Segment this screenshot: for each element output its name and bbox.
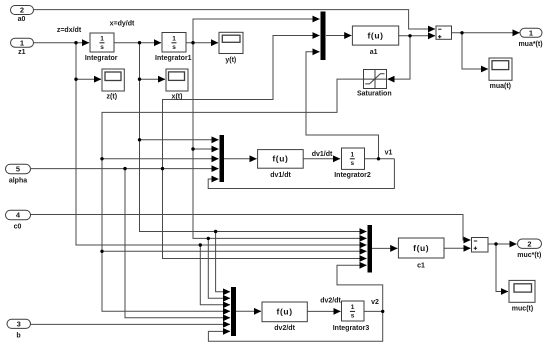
svg-text:2: 2 [20,6,24,15]
svg-text:1: 1 [350,151,354,158]
Saturation block [364,70,387,89]
svg-text:Saturation: Saturation [357,91,392,98]
wire v1 feedback down to Mux2 input 5 [208,159,394,189]
node junction z to x(t) [138,78,141,81]
svg-text:1: 1 [351,304,355,311]
wire z vertical branch down to c1-mux bus (input 1) [140,43,367,232]
wire z drop to Mux4 input 1 [216,232,230,292]
svg-text:alpha: alpha [9,178,27,185]
wire a1 output branch down into Saturation right side [388,36,411,79]
wire Sum1 output to outport mua*(t) [452,32,520,34]
scope screen y(t) [222,35,240,42]
integrator block Integrator2 [342,148,365,169]
svg-text:mua(t): mua(t) [490,83,511,90]
inport 3 (b) [7,319,31,328]
svg-text:muc(t): muc(t) [512,305,533,312]
svg-text:b: b [16,333,20,340]
svg-text:1: 1 [529,29,533,38]
scope block y(t) [219,32,243,53]
saturation icon axes and curve [364,70,387,89]
svg-text:v2: v2 [371,299,379,306]
svg-text:a1: a1 [370,49,378,56]
sum sign plus Sum2 [474,247,477,250]
Sum block Sum1 [436,26,452,39]
inport 4 (c0) [6,210,31,220]
node junction x to Mux2 [191,147,194,150]
svg-text:x(t): x(t) [172,93,183,100]
inport 5 (alpha) [6,164,31,174]
scope block x(t) [166,69,188,91]
wire z1 drop to Mux4 input 3 [200,245,230,305]
wire b port to Mux4 input 6 [31,323,231,325]
svg-text:z(t): z(t) [107,93,118,100]
svg-text:f(u): f(u) [413,243,429,253]
wire alpha branch down to c1-mux input 5 [163,169,367,259]
node junction alpha at x125 [123,167,126,170]
wire saturation branch to Mux2 input 3 [102,158,219,160]
Sum block Sum2 [472,238,489,253]
wire f(u) a1 output to Sum1 plus input [399,35,435,37]
svg-text:s: s [350,160,354,167]
node junction x bus drop [207,237,210,240]
wire Integrator1 to scope y(t) [186,42,218,44]
svg-text:3: 3 [17,320,21,329]
scope screen x(t) [169,72,185,81]
node junction a1 output [408,34,411,37]
node junction alpha at x162 [161,167,164,170]
svg-text:1: 1 [20,38,24,47]
node junction z to Mux2 [138,138,141,141]
inport 1 (z1) [11,38,34,47]
integrator block Integrator [90,33,114,52]
scope block muc(t) [509,280,535,302]
wire v2 up to c1-mux input 6 [337,265,383,311]
svg-text:Integrator3: Integrator3 [333,325,370,332]
svg-text:c1: c1 [417,263,425,270]
svg-text:f(u): f(u) [367,30,383,40]
svg-text:2: 2 [527,240,531,249]
wire z branch to scope x(t) [140,78,166,80]
svg-text:Integrator: Integrator [85,55,118,62]
scope screen muc(t) [514,284,532,292]
mux Mux2 [220,135,225,182]
Fcn block dv1/dt [258,150,304,169]
svg-text:v1: v1 [385,150,393,157]
wire alpha branch down to Mux4 input 5 [125,169,230,318]
wire c1-mux output to f(u) c1 [372,247,397,249]
node junction muc output [494,242,497,245]
node junction z on integrator output [138,41,141,44]
node junction saturation to Mux2 [100,157,103,160]
Fcn block c1 [398,238,444,258]
wire Mux2 output to f(u) dv1/dt [224,158,257,160]
sum sign plus Sum1 [438,35,441,38]
sum sign minus Sum2 [474,240,477,242]
svg-text:a0: a0 [18,16,26,23]
node junction x on integrator1 output [191,41,194,44]
svg-text:s: s [100,44,104,51]
node junction v1 [377,157,380,160]
mux Mux4 (dv2 mux) [231,287,236,336]
scope screen z(t) [105,72,121,81]
wire x branch to Mux2 input 2 [193,148,219,150]
svg-text:dv1/dt: dv1/dt [270,172,291,179]
node junction z1 bus drop [199,243,202,246]
wire v1 up to Mux1 input 3 [306,52,379,159]
svg-text:y(t): y(t) [225,57,236,64]
wire Integrator2 output to node v1 [363,158,394,160]
svg-text:mua*(t): mua*(t) [518,41,542,48]
integrator fraction bar Integrator3 [350,310,355,312]
node junction v2 [381,310,384,313]
wire v2 feedback down to Mux4 input 7 [208,311,382,341]
wire Mux4 output to f(u) dv2/dt [236,310,261,312]
wire Integrator3 output to node v2 [364,310,383,312]
svg-text:1: 1 [100,35,104,42]
integrator fraction bar Integrator [100,42,105,44]
svg-text:s: s [351,312,355,319]
wire f(u) c1 output to Sum2 plus input [444,247,471,249]
svg-text:Integrator2: Integrator2 [334,172,371,179]
wire branch down to scope mua(t) [462,33,488,69]
wire alpha port to Mux2 input 4 [31,168,219,170]
wire z1 branch to scope z(t) [76,78,101,80]
scope screen mua(t) [492,61,509,70]
integrator fraction bar Integrator2 [350,158,355,160]
wire x drop to Mux4 input 2 [208,238,230,298]
svg-text:f(u): f(u) [272,154,288,164]
integrator block Integrator1 [162,33,186,53]
svg-text:z=dx/dt: z=dx/dt [57,27,82,34]
wire alpha branch up to Mux1 input 2 [163,36,320,169]
svg-text:Integrator1: Integrator1 [155,55,192,62]
svg-text:1: 1 [172,35,176,42]
wire dv1/dt to Integrator2 [303,158,340,160]
inport 2 (a0) [11,6,34,15]
wire x vertical branch down to c1-mux bus (input 2) [193,43,367,239]
wire dv2/dt to Integrator3 [307,310,340,312]
wire Integrator to Integrator1 [114,42,161,44]
node junction z1 to z(t) [74,78,77,81]
wire z branch to Mux2 input 1 [140,139,219,141]
svg-text:f(u): f(u) [277,307,293,317]
node junction saturation bus c1 [100,250,103,253]
scope block mua(t) [489,58,512,80]
svg-text:dv2/dt: dv2/dt [274,325,295,332]
scope block z(t) [102,69,124,91]
wire Saturation output wrap-around to Mux4 input 4 [102,79,364,311]
wire Mux1 output to f(u) a1 [326,35,351,37]
outport 2 (muc*(t)) [518,239,542,248]
svg-text:z1: z1 [18,49,26,56]
integrator fraction bar Integrator1 [172,42,177,44]
wire x branch up to Mux1 input 1 [193,19,320,43]
wire Sum2 output to outport muc*(t) [488,243,517,245]
svg-text:c0: c0 [14,224,22,231]
mux Mux3 (c1 mux) [368,225,373,273]
svg-text:s: s [172,44,176,51]
wire c0 port to Sum2 minus input [31,215,471,241]
node junction on z1 wire [74,41,77,44]
outport 1 (mua*(t)) [520,28,542,37]
wire branch down to scope muc(t) [496,244,508,292]
sum sign minus Sum1 [438,28,441,30]
svg-text:dv1/dt: dv1/dt [312,151,333,158]
svg-text:x=dy/dt: x=dy/dt [110,21,135,28]
svg-text:dv2/dt: dv2/dt [320,298,341,305]
wire a0 to Sum1 minus input [34,10,436,29]
mux Mux1 [321,12,326,61]
svg-text:5: 5 [16,165,20,174]
wire saturation branch to c1-mux input 4 [102,250,367,252]
node junction z bus drop [214,230,217,233]
wire z1 vertical branch down to c1-mux bus (input 3) [76,43,367,245]
Fcn block a1 [352,26,398,45]
integrator block Integrator3 [342,301,365,321]
Fcn block dv2/dt [262,302,307,322]
wire z1 port to Integrator [34,42,90,44]
svg-text:muc*(t): muc*(t) [517,252,541,259]
node junction mua output [460,31,463,34]
